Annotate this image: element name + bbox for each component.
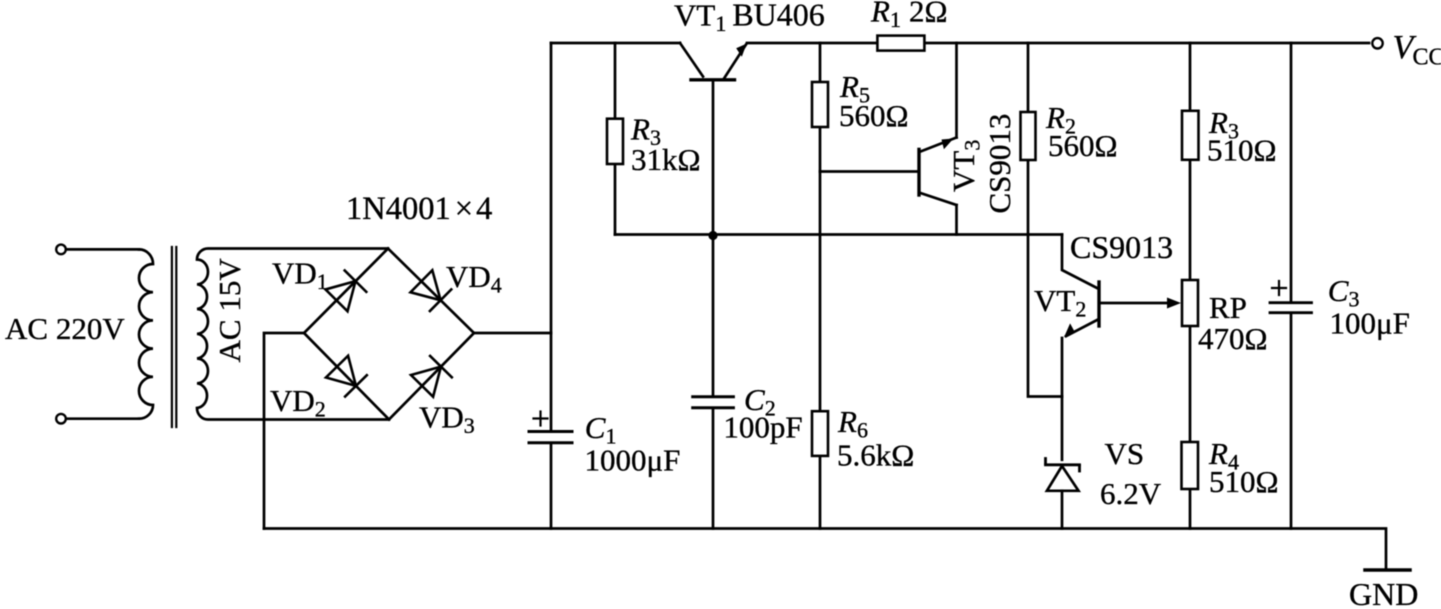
svg-text:1000μF: 1000μF	[585, 443, 681, 478]
svg-text:100pF: 100pF	[723, 410, 802, 445]
svg-text:RP: RP	[1209, 290, 1247, 325]
svg-text:6.2V: 6.2V	[1100, 476, 1162, 511]
svg-text:VS: VS	[1105, 436, 1145, 471]
svg-text:AC 15V: AC 15V	[212, 258, 247, 363]
svg-text:CC: CC	[1413, 45, 1441, 71]
svg-text:CS9013: CS9013	[1070, 229, 1173, 265]
svg-text:1N4001×4: 1N4001×4	[346, 191, 492, 227]
svg-text:470Ω: 470Ω	[1198, 321, 1268, 356]
svg-text:100μF: 100μF	[1330, 306, 1410, 341]
svg-text:VT1BU406: VT1BU406	[674, 0, 825, 36]
svg-text:510Ω: 510Ω	[1209, 464, 1279, 499]
svg-text:5.6kΩ: 5.6kΩ	[837, 438, 914, 473]
svg-text:510Ω: 510Ω	[1207, 133, 1277, 168]
svg-text:R12Ω: R12Ω	[870, 0, 947, 32]
svg-text:560Ω: 560Ω	[839, 98, 909, 133]
svg-text:31kΩ: 31kΩ	[631, 142, 701, 177]
svg-text:560Ω: 560Ω	[1048, 128, 1118, 163]
svg-text:CS9013: CS9013	[982, 114, 1017, 214]
svg-text:AC 220V: AC 220V	[5, 311, 125, 346]
svg-text:GND: GND	[1349, 576, 1418, 609]
